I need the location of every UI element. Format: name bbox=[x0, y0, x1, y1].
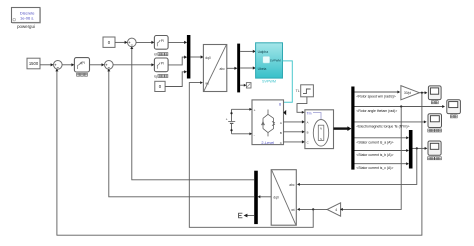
wire rotor speed wm to gain bbox=[355, 91, 401, 94]
ground E (rotated) bbox=[239, 213, 243, 218]
svg-text:+: + bbox=[226, 117, 228, 121]
wire U2 dq0 out to demux3 bbox=[258, 195, 272, 198]
svg-text:dq0: dq0 bbox=[205, 56, 211, 60]
PI1 label 转速环 bbox=[77, 73, 88, 76]
motor PMSM bbox=[305, 110, 334, 149]
wire converter C to motor bbox=[284, 140, 305, 143]
svg-text:PI: PI bbox=[161, 61, 164, 65]
scope2 label bbox=[450, 115, 457, 118]
svg-text:1500: 1500 bbox=[29, 61, 39, 66]
scope1 label bbox=[431, 101, 438, 104]
scope3 电磁转矩 bbox=[428, 114, 442, 128]
svg-text:<Stator current is_a (A)>: <Stator current is_a (A)> bbox=[356, 140, 393, 144]
DC voltage source E1 bbox=[226, 108, 252, 135]
converter gate port chevron bbox=[283, 110, 286, 115]
wire stator current b to mux2 bbox=[355, 149, 410, 152]
scope4 定子电流 bbox=[428, 141, 441, 155]
demux2 (Uabc demux) bbox=[237, 44, 240, 93]
svg-text:-: - bbox=[254, 133, 255, 137]
wire PI1 to sum2 bbox=[90, 63, 105, 66]
svg-text:2-Level: 2-Level bbox=[261, 140, 274, 145]
wire stator current c to mux2 bbox=[355, 162, 410, 165]
wire currents feedback to abc input bbox=[297, 148, 417, 186]
gain block 30/pi bbox=[401, 86, 420, 100]
scope3 label bbox=[428, 129, 442, 132]
wire stator current a to mux2 bbox=[355, 136, 410, 139]
svg-text:1e-06 s.: 1e-06 s. bbox=[20, 16, 34, 21]
mux1 (vdq0 mux) bbox=[187, 35, 191, 79]
wire rotor angle to scope2 bbox=[355, 105, 446, 108]
svg-text:PI: PI bbox=[82, 61, 85, 65]
scope1 转速 bbox=[428, 86, 441, 100]
svg-text:30/pi: 30/pi bbox=[404, 91, 412, 95]
constant block 0 (id reference) bbox=[103, 37, 115, 47]
wire mux2 to scope4 with junction bbox=[413, 147, 428, 150]
svg-text:N: N bbox=[320, 127, 322, 131]
wire speed feedback to sum1 bbox=[55, 69, 422, 236]
wire converter A to motor bbox=[284, 120, 305, 123]
sum block sum1 (speed error) bbox=[54, 61, 63, 70]
scope4 label bbox=[428, 157, 442, 160]
wire 0 to sum3 bbox=[115, 41, 128, 44]
wire iq feedback to sum2 bbox=[107, 69, 254, 197]
svg-text:abc: abc bbox=[219, 67, 225, 71]
gain block pole pairs (left pointing) bbox=[327, 203, 341, 216]
wire PI3 to mux1 bbox=[168, 41, 187, 44]
svg-text:<Rotor angle thetam (rad)>: <Rotor angle thetam (rad)> bbox=[356, 109, 397, 113]
svg-text:powergui: powergui bbox=[17, 24, 35, 29]
PI3 label id电流环 bbox=[154, 53, 168, 57]
terminator block T1 bbox=[246, 83, 251, 88]
PI controller PI3 (id current loop) bbox=[154, 36, 168, 50]
wire id feedback to sum3 bbox=[130, 46, 254, 180]
svg-text:iq: iq bbox=[154, 75, 157, 79]
wire SVPWM to converter gate (cyan) bbox=[283, 61, 293, 102]
svg-text:g: g bbox=[279, 102, 281, 106]
powergui block bbox=[12, 8, 41, 24]
wire theta feedback to gain (from angle junction) bbox=[340, 107, 401, 211]
svg-text:SVPWM: SVPWM bbox=[262, 80, 276, 84]
constant block 1500 bbox=[27, 58, 40, 69]
wire sum1 to PI1 bbox=[62, 63, 74, 66]
wire TL to motor Tm bbox=[297, 97, 307, 114]
wire torque Te to scope3 bbox=[355, 120, 427, 123]
wire converter B to motor bbox=[284, 130, 305, 133]
svg-text:A: A bbox=[307, 121, 309, 125]
svg-text:wt: wt bbox=[291, 208, 294, 212]
svg-text:<Stator current is_c (A)>: <Stator current is_c (A)> bbox=[356, 166, 393, 170]
demux3 (dq0 demux) bbox=[254, 171, 258, 224]
PI2 label iq电流环 bbox=[154, 75, 168, 79]
sum block sum3 (id error) bbox=[128, 38, 137, 47]
svg-text:id: id bbox=[154, 53, 157, 57]
wire demux2 to SVPWM Ualpha bbox=[240, 50, 256, 53]
wire zero sequence to ground E bbox=[244, 214, 255, 218]
svg-text:C: C bbox=[307, 140, 309, 144]
transformation block U1 dq0 to abc bbox=[203, 45, 226, 92]
svg-text:S: S bbox=[320, 137, 322, 141]
wire 0 to mux1 bbox=[165, 70, 187, 86]
transformation block U2 abc to dq0 (mirrored) bbox=[271, 170, 296, 226]
bus selector bbox=[351, 87, 354, 170]
wire 1500 to sum1 bbox=[40, 63, 54, 66]
svg-text:TL: TL bbox=[296, 89, 300, 93]
svg-text:PI: PI bbox=[161, 39, 164, 43]
svg-text:B: B bbox=[307, 130, 309, 134]
svg-text:+: + bbox=[254, 108, 256, 112]
wire U1 abc out to demux2 bbox=[227, 67, 238, 70]
wire sum2 to PI2 bbox=[113, 63, 154, 66]
converter IGBT diode icon bbox=[262, 110, 275, 137]
constant block 0 (zero sequence) bbox=[155, 81, 165, 91]
svg-text:<Stator current is_b (A)>: <Stator current is_b (A)> bbox=[356, 153, 393, 157]
svg-text:Ubeta: Ubeta bbox=[258, 67, 267, 71]
PI controller PI1 (speed loop) bbox=[74, 58, 89, 72]
wire demux2 to SVPWM Ubeta bbox=[240, 66, 256, 69]
svg-text:B: B bbox=[280, 131, 282, 135]
svg-text:wt: wt bbox=[205, 81, 208, 85]
svg-text:<Rotor speed wm (rad/s)>: <Rotor speed wm (rad/s)> bbox=[356, 95, 395, 99]
converter block 2-Level bbox=[252, 100, 284, 145]
wire motor m to bus selector (bold) bbox=[334, 126, 352, 131]
subsystem SVPWM (selected, cyan) bbox=[256, 43, 283, 78]
wire demux2 to terminator bbox=[240, 84, 246, 87]
wire gain to scope1 with speed feedback junction bbox=[419, 91, 427, 94]
sum block sum2 (iq error) bbox=[105, 61, 114, 70]
svg-text:4: 4 bbox=[335, 208, 337, 212]
wire sum3 to PI3 bbox=[136, 41, 154, 44]
scope2 转角 bbox=[447, 100, 461, 114]
svg-text:SVPWM: SVPWM bbox=[270, 59, 282, 63]
svg-text:Tm: Tm bbox=[307, 112, 312, 116]
svg-text:Ualpha: Ualpha bbox=[258, 50, 269, 54]
wire gain to wt ports (with branch to top block) bbox=[189, 81, 327, 227]
svg-text:dq0: dq0 bbox=[273, 196, 279, 200]
PI controller PI2 (iq current loop) bbox=[154, 58, 168, 72]
wire mux1 to dq0-abc block bbox=[190, 55, 203, 58]
svg-text:abc: abc bbox=[289, 183, 295, 187]
mux2 (stator currents) bbox=[409, 130, 413, 169]
wire PI2 to mux1 bbox=[168, 56, 187, 65]
step block TL (load torque) bbox=[301, 85, 314, 97]
svg-text:A: A bbox=[280, 121, 282, 125]
